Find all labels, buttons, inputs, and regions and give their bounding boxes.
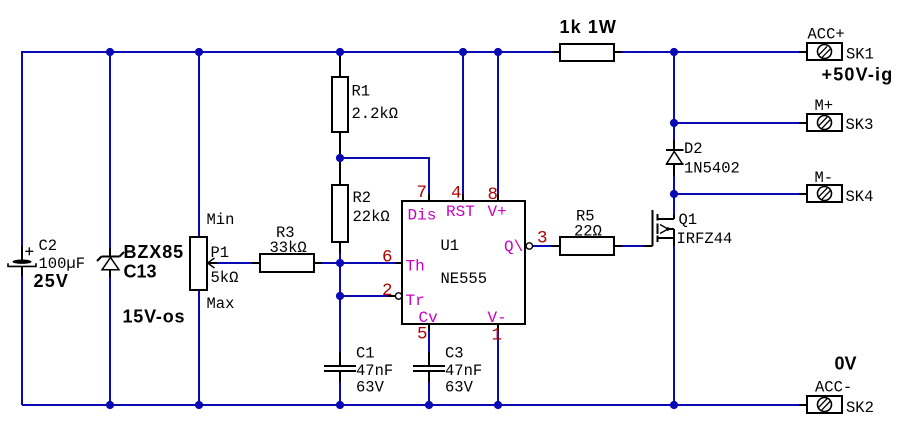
- svg-text:22Ω: 22Ω: [574, 223, 602, 241]
- svg-text:P1: P1: [211, 244, 230, 262]
- wire: C3 top lead: [428, 352, 430, 366]
- svg-text:BZX85: BZX85: [124, 242, 185, 262]
- resistor R2: [332, 185, 390, 242]
- node: bottom rail / C3 junction: [425, 401, 433, 409]
- wire: left rail lower (from C2): [21, 266, 23, 405]
- wire: pin 3 to R5: [533, 245, 553, 247]
- wire: SK2 lead: [799, 404, 807, 406]
- node: bottom rail / zener junction: [106, 401, 114, 409]
- wire: R1 to node A: [339, 132, 341, 185]
- wire: Tr pin 2 stub: [388, 295, 395, 297]
- transistor Q1 IRFZ44: [653, 210, 733, 248]
- svg-text:SK4: SK4: [846, 188, 874, 206]
- svg-text:1: 1: [492, 326, 503, 346]
- wire: R1 top lead: [339, 51, 341, 77]
- wire: R2 bottom lead: [339, 242, 341, 253]
- wire: R5 left lead: [552, 245, 560, 247]
- svg-text:Th: Th: [406, 258, 425, 276]
- wire: pin 4 stub: [462, 194, 464, 202]
- wire: Th pin 6 horizontal: [340, 262, 395, 264]
- node: bottom rail / C1 junction: [336, 401, 344, 409]
- svg-text:8: 8: [488, 185, 499, 205]
- wire: top rail right section: [622, 51, 800, 53]
- svg-text:V-: V-: [488, 309, 507, 327]
- svg-text:V+: V+: [488, 203, 507, 221]
- wire: pin 4 vertical: [462, 52, 464, 194]
- capacitor C3: [413, 345, 482, 397]
- wire: 1k resistor left lead: [552, 51, 560, 53]
- node: top rail / pot junction: [195, 48, 203, 56]
- svg-text:5: 5: [417, 325, 428, 345]
- wire: pin 7 vertical: [428, 157, 430, 194]
- connector SK1: [807, 26, 893, 85]
- svg-text:Tr: Tr: [406, 292, 425, 310]
- svg-text:M-: M-: [815, 169, 834, 187]
- wire: pin 5 down to C3: [428, 331, 430, 352]
- svg-text:NE555: NE555: [441, 270, 488, 288]
- diode D2 1N5402: [666, 140, 740, 178]
- wire: top rail left section: [22, 51, 552, 53]
- wire: D2 to M- node: [673, 176, 675, 194]
- svg-text:R1: R1: [352, 83, 371, 101]
- svg-text:5kΩ: 5kΩ: [211, 269, 239, 287]
- wire: C3 to bottom rail: [428, 382, 430, 405]
- svg-text:7: 7: [417, 183, 428, 203]
- resistor R1: [332, 77, 398, 132]
- svg-text:ACC-: ACC-: [815, 379, 852, 397]
- connector SK2: [807, 354, 874, 418]
- wire: gate lead: [643, 245, 653, 247]
- capacitor C2: [8, 237, 85, 291]
- svg-text:4: 4: [451, 184, 462, 204]
- svg-text:SK1: SK1: [846, 46, 874, 64]
- wire: pin 8 vertical: [497, 52, 499, 194]
- wire: pin 8 stub: [497, 194, 499, 202]
- wire: C1 to bottom rail: [339, 382, 341, 405]
- svg-text:63V: 63V: [356, 379, 385, 397]
- wire: M+ branch to SK3: [674, 122, 800, 124]
- wire: node A to pin 7 horizontal: [340, 157, 429, 159]
- node: top rail / pin 4 junction: [459, 48, 467, 56]
- svg-text:63V: 63V: [445, 379, 474, 397]
- svg-text:Q1: Q1: [679, 211, 698, 229]
- node: bottom rail / Q1 source junction: [670, 401, 678, 409]
- wire: C1 bottom lead: [339, 372, 341, 382]
- wire: C1 top lead: [339, 352, 341, 366]
- wire: C3 bottom lead: [428, 372, 430, 382]
- zener diode BZX85C13: [97, 242, 185, 327]
- svg-text:1k 1W: 1k 1W: [560, 17, 618, 37]
- svg-text:3: 3: [537, 229, 548, 249]
- node: Th / R3 junction: [336, 259, 344, 267]
- node: R1-R2 divider node A: [336, 154, 344, 162]
- pin 2 inversion bubble: [395, 293, 401, 299]
- node: bottom rail / pin 1 junction: [494, 401, 502, 409]
- node: top rail / pin 8 junction: [494, 48, 502, 56]
- svg-text:C2: C2: [39, 237, 58, 255]
- wire: R5 right lead: [614, 245, 622, 247]
- resistor R3: [252, 224, 340, 272]
- node: top rail / R1 junction: [336, 48, 344, 56]
- svg-text:C13: C13: [124, 262, 157, 282]
- svg-text:+50V-ig: +50V-ig: [822, 65, 894, 85]
- svg-text:2: 2: [382, 281, 393, 301]
- svg-text:2.2kΩ: 2.2kΩ: [352, 105, 399, 123]
- node: top rail / zener junction: [106, 48, 114, 56]
- wire: SK1 lead: [799, 51, 807, 53]
- svg-text:6: 6: [382, 248, 393, 268]
- wire: divider rail down to C1: [339, 253, 341, 352]
- wire: Tr pin 2 horizontal: [340, 295, 388, 297]
- svg-text:33kΩ: 33kΩ: [270, 239, 307, 257]
- svg-text:U1: U1: [441, 237, 460, 255]
- svg-text:ACC+: ACC+: [808, 26, 845, 44]
- wire: M- node to drain: [673, 194, 675, 215]
- wire: bottom rail: [22, 404, 800, 406]
- node: M- junction: [670, 190, 678, 198]
- node: M+ junction: [670, 119, 678, 127]
- wire: pin 5 stub: [428, 324, 430, 331]
- svg-text:47nF: 47nF: [445, 362, 482, 380]
- svg-text:C1: C1: [356, 345, 375, 363]
- svg-text:RST: RST: [446, 203, 475, 221]
- resistor R5: [560, 208, 614, 256]
- svg-text:Dis: Dis: [408, 207, 437, 225]
- capacitor C1: [324, 345, 393, 397]
- wire: right rail upper (ACC+ to M+): [673, 52, 675, 140]
- wire: D2 bottom lead: [673, 164, 675, 176]
- svg-text:C3: C3: [445, 345, 464, 363]
- svg-text:SK2: SK2: [846, 399, 874, 417]
- wire: zener branch upper: [109, 51, 111, 248]
- svg-text:D2: D2: [684, 140, 703, 158]
- connector SK3: [807, 97, 873, 134]
- svg-text:22kΩ: 22kΩ: [353, 208, 390, 226]
- svg-text:0V: 0V: [835, 354, 857, 374]
- wire: SK4 lead: [799, 193, 807, 195]
- svg-text:Max: Max: [207, 295, 235, 313]
- wire: 1k resistor right lead: [614, 51, 622, 53]
- wire: pin 1 down to bottom rail: [497, 331, 499, 405]
- svg-text:Min: Min: [207, 211, 235, 229]
- wire: Th pin 6 stub: [395, 262, 402, 264]
- svg-text:25V: 25V: [34, 271, 70, 291]
- wire: zener branch lower: [109, 277, 111, 405]
- node: Tr junction: [336, 292, 344, 300]
- wire: pin 7 stub: [428, 194, 430, 202]
- connector SK4: [807, 169, 873, 206]
- wire: pot branch upper: [198, 51, 200, 237]
- svg-text:SK3: SK3: [846, 116, 874, 134]
- wire: pot branch lower: [198, 290, 200, 405]
- pin 3 inversion bubble: [526, 243, 532, 249]
- potentiometer P1: [190, 211, 252, 313]
- node: bottom rail / pot junction: [195, 401, 203, 409]
- svg-text:M+: M+: [815, 97, 834, 115]
- wire: Q1 source down to bottom rail: [673, 246, 675, 405]
- resistor 1k 1W: [560, 17, 618, 61]
- svg-text:IRFZ44: IRFZ44: [677, 230, 733, 248]
- wire: R5 to gate: [622, 245, 643, 247]
- svg-text:15V-os: 15V-os: [123, 307, 186, 327]
- svg-text:47nF: 47nF: [356, 362, 393, 380]
- wire: D2 top lead: [673, 140, 675, 150]
- wire: SK3 lead: [799, 122, 807, 124]
- wire: left rail upper (to C2): [21, 51, 23, 247]
- svg-text:Q\: Q\: [504, 238, 523, 256]
- svg-text:1N5402: 1N5402: [684, 160, 740, 178]
- wire: pin 1 stub: [497, 324, 499, 331]
- svg-text:R2: R2: [353, 189, 372, 207]
- op-amp U1 NE555 box: [382, 183, 548, 346]
- node: top rail / right rail junction: [670, 48, 678, 56]
- wire: M- branch to SK4: [674, 193, 800, 195]
